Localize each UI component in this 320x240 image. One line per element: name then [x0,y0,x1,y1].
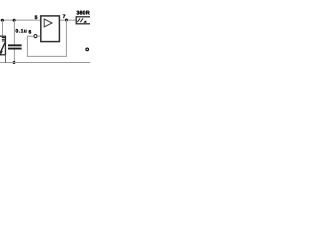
resistor R1 hatch wedge [83,21,86,23]
wire feedback bottom horizontal [27,55,67,57]
trimmer RV1 box (cut off at left edge) [0,36,5,55]
wire bottom rail [0,62,90,64]
wire RV1 bottom to bottom rail [5,55,7,63]
wire from dot A down to RV1 [2,20,4,36]
svg-text:360R: 360R [76,11,90,17]
resistor R1 box (cut off at right edge) [76,17,92,24]
node junction dot pin7 [65,19,68,22]
trimmer RV1 hatch stripes [2,36,6,39]
wire pin6 left segment [27,35,34,37]
wire pin6 vertical down [26,36,28,56]
node junction dot on bottom rail [13,61,16,64]
op-amp U1 buffer triangle [44,19,52,27]
inverting bubble on pin 6 [34,35,37,38]
resistor R1 hatch slash 1 [77,18,80,22]
op-amp U1 box [41,16,60,42]
capacitor C1 bottom plate [8,48,22,50]
wire from dot B down to C1 [13,20,15,44]
node junction dot A [1,19,4,22]
svg-text:7: 7 [63,14,66,20]
wire from C1 to bottom rail [13,50,15,63]
wire top rail right segment [59,19,76,21]
terminal circle right edge [86,48,89,51]
capacitor C1 top plate [8,44,22,46]
wire top rail left segment [0,19,41,21]
resistor R1 hatch slash 2 [80,18,83,22]
wire bubble stub to box [37,35,40,37]
svg-text:6: 6 [29,30,32,36]
wire feedback vertical up to pin7 node [65,20,67,57]
svg-text:0.1u: 0.1u [16,29,28,35]
node junction dot B [13,19,16,22]
trimmer RV1 diagonal slashes [0,43,5,53]
svg-text:5: 5 [35,15,38,21]
